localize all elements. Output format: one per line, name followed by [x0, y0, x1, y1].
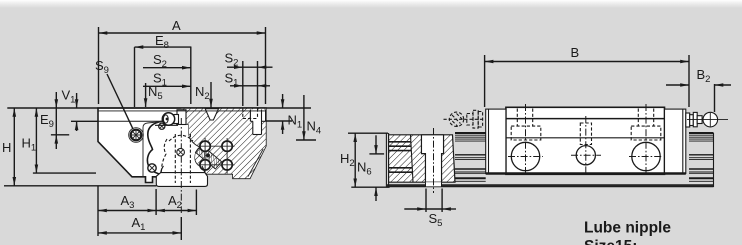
svg-text:Lube nipple: Lube nipple: [584, 220, 671, 237]
svg-text:V1: V1: [62, 88, 76, 106]
svg-text:N2: N2: [195, 84, 210, 102]
svg-text:N1: N1: [288, 113, 303, 131]
svg-text:A2: A2: [168, 193, 182, 211]
svg-text:H1: H1: [22, 136, 37, 154]
svg-text:A: A: [172, 18, 181, 33]
svg-text:E8: E8: [155, 33, 169, 51]
svg-text:E9: E9: [40, 112, 54, 130]
svg-text:N6: N6: [357, 160, 372, 178]
svg-text:A3: A3: [121, 193, 135, 211]
svg-text:Size15:: Size15:: [584, 238, 637, 245]
svg-text:N4: N4: [307, 119, 322, 137]
svg-text:B: B: [571, 45, 580, 60]
svg-text:H: H: [2, 140, 11, 155]
svg-text:S2: S2: [225, 51, 239, 69]
svg-text:S9: S9: [95, 58, 109, 76]
svg-text:H2: H2: [340, 151, 355, 169]
svg-text:A1: A1: [132, 215, 146, 233]
svg-text:S5: S5: [429, 211, 443, 229]
svg-text:B2: B2: [697, 67, 711, 85]
